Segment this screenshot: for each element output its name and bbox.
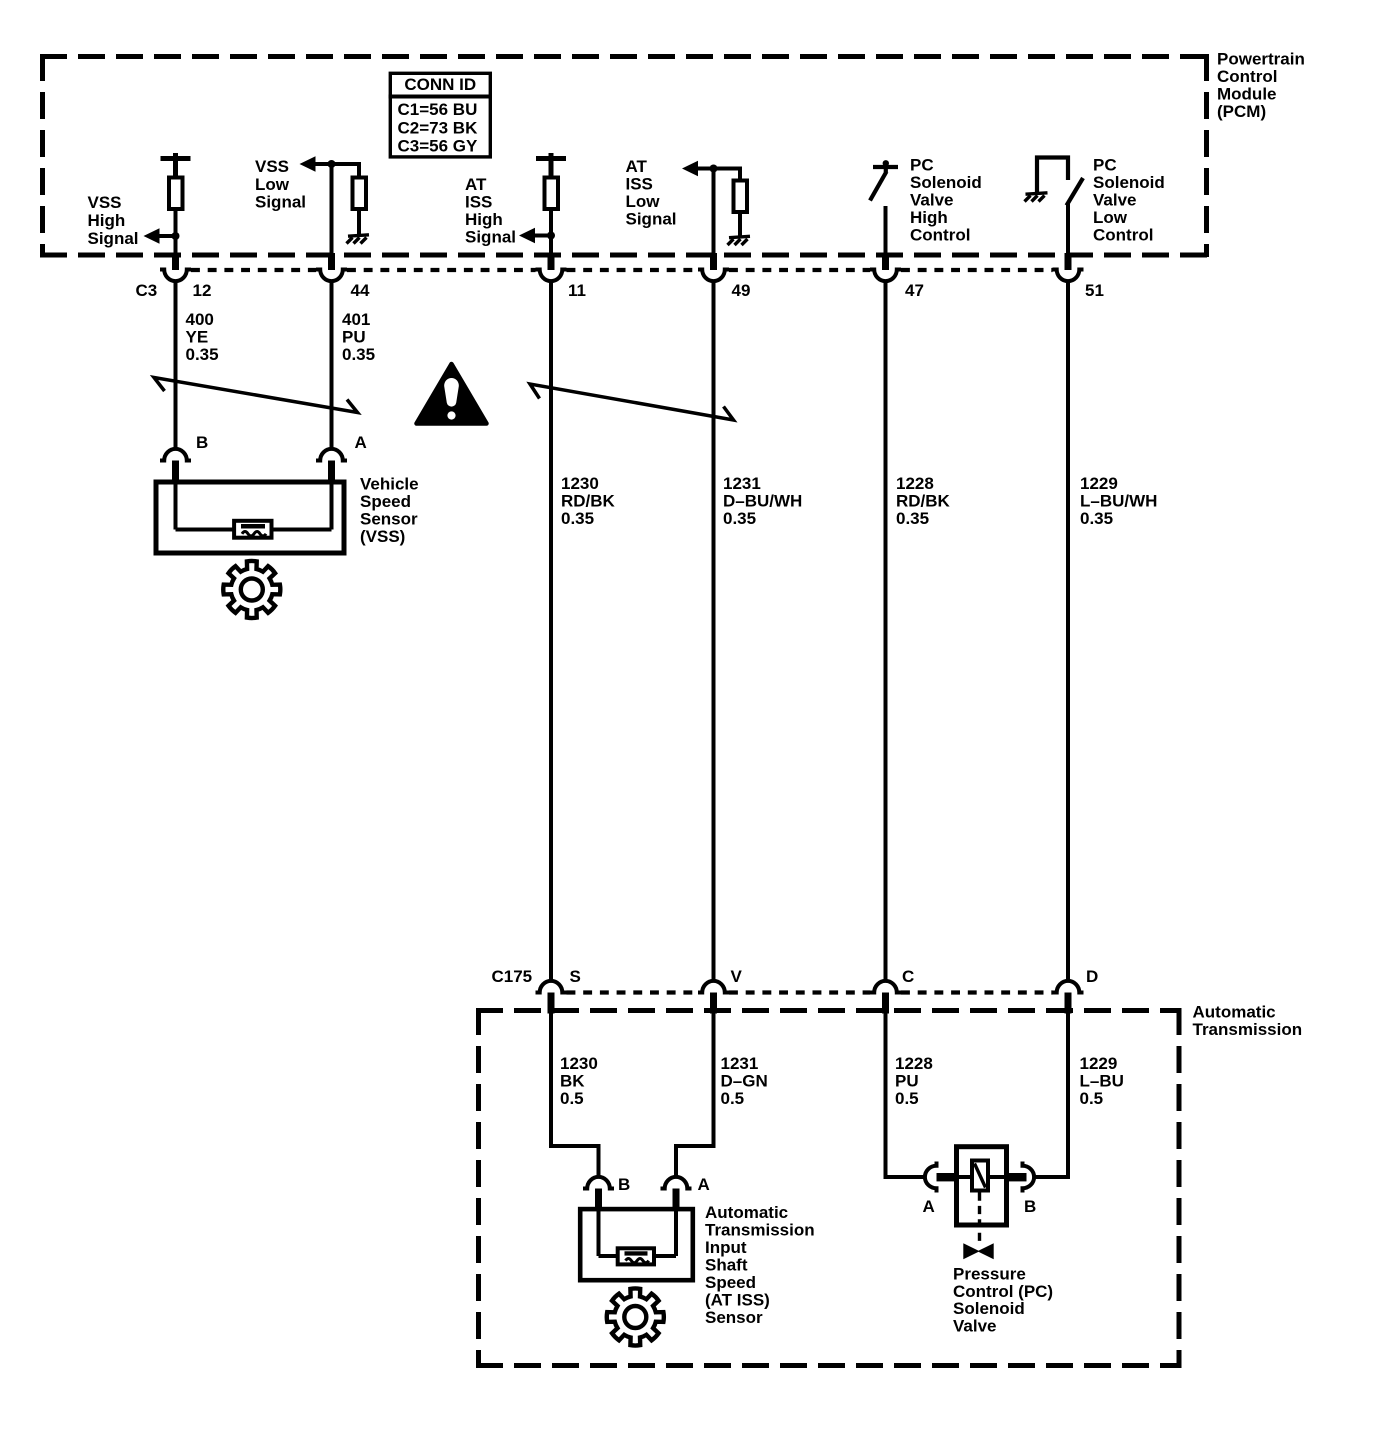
svg-text:C1=56 BU: C1=56 BU xyxy=(398,100,478,119)
terminal B of VSS xyxy=(160,449,191,461)
wire pin 47 vertical inside PCM xyxy=(884,206,888,256)
pin 47 feedthrough xyxy=(882,253,889,270)
pin 51 feedthrough xyxy=(1065,253,1072,270)
svg-text:44: 44 xyxy=(351,281,370,300)
connector C175 dotted line xyxy=(567,990,1053,994)
terminal B of AT ISS sensor xyxy=(583,1177,614,1189)
wire VSS low horizontal xyxy=(313,162,359,166)
connector C2 pin 47 terminal xyxy=(870,270,901,282)
svg-text:Powertrain: Powertrain xyxy=(1217,50,1305,69)
svg-text:0.5: 0.5 xyxy=(895,1089,919,1108)
svg-text:Signal: Signal xyxy=(88,229,139,248)
svg-text:Low: Low xyxy=(626,192,661,211)
PC solenoid valve box xyxy=(957,1147,1007,1225)
VSS internal wiring xyxy=(176,484,332,530)
svg-text:Signal: Signal xyxy=(626,210,677,229)
svg-text:Valve: Valve xyxy=(1093,191,1137,210)
svg-text:YE: YE xyxy=(186,328,209,347)
svg-text:Solenoid: Solenoid xyxy=(910,173,982,192)
wire pin 44 vertical inside PCM xyxy=(330,162,334,256)
svg-text:Signal: Signal xyxy=(465,228,516,247)
svg-text:L–BU: L–BU xyxy=(1080,1072,1124,1091)
wire AT ISS low drop to resistor xyxy=(738,167,742,181)
svg-text:L–BU/WH: L–BU/WH xyxy=(1080,492,1157,511)
svg-text:S: S xyxy=(570,967,581,986)
resistor VSS low xyxy=(353,178,367,210)
gear icon VSS xyxy=(223,561,280,618)
arrow VSS Low Signal xyxy=(300,156,316,172)
svg-text:V: V xyxy=(731,967,743,986)
svg-text:C2=73 BK: C2=73 BK xyxy=(398,119,479,138)
arrow VSS High Signal xyxy=(144,228,160,244)
PC solenoid low driver switch with ground hook xyxy=(1037,158,1083,206)
terminal A of PC solenoid xyxy=(925,1162,937,1193)
Automatic Transmission dashed box xyxy=(476,1008,1182,1368)
svg-text:Low: Low xyxy=(1093,208,1128,227)
AT ISS pickup coil element xyxy=(618,1248,654,1264)
svg-text:1230: 1230 xyxy=(560,1054,598,1073)
svg-text:High: High xyxy=(88,211,126,230)
svg-text:0.35: 0.35 xyxy=(723,509,756,528)
svg-text:Shaft: Shaft xyxy=(705,1256,748,1275)
PC solenoid high driver switch xyxy=(870,160,898,200)
svg-text:VSS: VSS xyxy=(88,193,122,212)
svg-text:Low: Low xyxy=(255,175,290,194)
svg-text:0.5: 0.5 xyxy=(560,1089,584,1108)
pin 49 feedthrough xyxy=(710,253,717,270)
svg-text:A: A xyxy=(923,1197,935,1216)
AT ISS sensor box xyxy=(580,1209,693,1280)
svg-text:0.5: 0.5 xyxy=(721,1089,745,1108)
svg-text:11: 11 xyxy=(568,281,586,300)
wire 1229 L-BU/WH circuit 51 to C175 D xyxy=(1066,281,1070,981)
svg-text:A: A xyxy=(355,433,367,452)
svg-text:High: High xyxy=(465,210,503,229)
PCM module dashed box xyxy=(40,54,1209,257)
resistor AT ISS low xyxy=(734,181,748,213)
ground AT ISS low xyxy=(728,236,751,245)
svg-text:VSS: VSS xyxy=(255,157,289,176)
arrow AT ISS Low Signal xyxy=(682,161,698,177)
connector C3 dotted line xyxy=(191,268,1053,272)
svg-text:0.35: 0.35 xyxy=(896,509,929,528)
svg-text:1231: 1231 xyxy=(723,474,761,493)
terminal A of VSS xyxy=(316,449,347,461)
svg-text:Solenoid: Solenoid xyxy=(1093,173,1165,192)
gear icon AT ISS xyxy=(607,1288,664,1345)
wire 400 YE circuit 12 to VSS B xyxy=(174,281,178,449)
svg-text:1228: 1228 xyxy=(896,474,934,493)
svg-text:1230: 1230 xyxy=(561,474,599,493)
svg-text:Automatic: Automatic xyxy=(705,1203,788,1222)
resistor AT ISS high xyxy=(545,178,559,210)
svg-text:RD/BK: RD/BK xyxy=(896,492,951,511)
svg-text:Transmission: Transmission xyxy=(1193,1020,1303,1039)
svg-text:B: B xyxy=(1024,1197,1036,1216)
wire 1228 RD/BK circuit 47 to C175 C xyxy=(884,281,888,981)
svg-text:Input: Input xyxy=(705,1238,747,1257)
pin 12 feedthrough xyxy=(172,253,179,270)
svg-text:1231: 1231 xyxy=(721,1054,759,1073)
wire pin 51 vertical inside PCM xyxy=(1066,204,1070,256)
svg-text:Solenoid: Solenoid xyxy=(953,1299,1025,1318)
svg-text:PC: PC xyxy=(910,156,934,175)
svg-text:PC: PC xyxy=(1093,156,1117,175)
PC solenoid coil element xyxy=(972,1161,988,1191)
junction dot AT ISS high xyxy=(547,232,555,240)
wire VSS low drop to resistor xyxy=(357,162,361,177)
svg-text:401: 401 xyxy=(342,310,370,329)
wire 1230 RD/BK circuit 11 to C175 S xyxy=(549,281,553,981)
junction dot VSS low at wire 44 xyxy=(328,160,336,168)
svg-text:49: 49 xyxy=(732,281,751,300)
pin 11 feedthrough xyxy=(548,253,555,270)
svg-text:Module: Module xyxy=(1217,85,1277,104)
terminal A of AT ISS sensor xyxy=(661,1177,692,1189)
svg-text:1229: 1229 xyxy=(1080,1054,1118,1073)
svg-text:Pressure: Pressure xyxy=(953,1265,1026,1284)
svg-text:ISS: ISS xyxy=(626,175,653,194)
svg-text:Valve: Valve xyxy=(910,191,954,210)
svg-text:AT: AT xyxy=(626,157,648,176)
ground VSS low xyxy=(347,235,370,244)
svg-text:B: B xyxy=(196,433,208,452)
svg-text:RD/BK: RD/BK xyxy=(561,492,616,511)
junction dot AT ISS low at wire 49 xyxy=(710,165,718,173)
svg-text:D–GN: D–GN xyxy=(721,1072,768,1091)
wire 1231 D-BU/WH circuit 49 to C175 V xyxy=(712,281,716,981)
PC solenoid actuator dashed stem xyxy=(978,1193,981,1242)
svg-text:Speed: Speed xyxy=(705,1273,756,1292)
PC valve bowtie symbol xyxy=(964,1244,993,1259)
svg-text:High: High xyxy=(910,208,948,227)
svg-text:C: C xyxy=(902,967,914,986)
Vehicle Speed Sensor VSS box xyxy=(156,482,344,553)
svg-text:Speed: Speed xyxy=(360,492,411,511)
svg-text:12: 12 xyxy=(193,281,212,300)
svg-text:0.35: 0.35 xyxy=(186,345,219,364)
wire VSS low to ground xyxy=(357,209,361,235)
svg-text:Sensor: Sensor xyxy=(705,1308,763,1327)
svg-text:A: A xyxy=(698,1175,710,1194)
svg-text:ISS: ISS xyxy=(465,193,492,212)
wire 1229 L-BU C175 D to PC solenoid B xyxy=(1034,1013,1071,1179)
svg-text:(AT ISS): (AT ISS) xyxy=(705,1291,770,1310)
svg-text:CONN ID: CONN ID xyxy=(404,75,476,94)
svg-text:Valve: Valve xyxy=(953,1317,997,1336)
svg-text:(VSS): (VSS) xyxy=(360,527,405,546)
wire AT ISS low horizontal xyxy=(696,167,741,171)
svg-text:C175: C175 xyxy=(492,967,533,986)
svg-text:1228: 1228 xyxy=(895,1054,933,1073)
warning triangle note xyxy=(417,364,487,424)
svg-text:D: D xyxy=(1086,967,1098,986)
svg-text:Control: Control xyxy=(910,226,970,245)
svg-text:Control: Control xyxy=(1093,226,1153,245)
svg-text:0.35: 0.35 xyxy=(342,345,375,364)
resistor VSS high xyxy=(169,178,183,210)
svg-text:1229: 1229 xyxy=(1080,474,1118,493)
svg-text:D–BU/WH: D–BU/WH xyxy=(723,492,802,511)
svg-text:Vehicle: Vehicle xyxy=(360,475,419,494)
svg-text:C3: C3 xyxy=(136,281,158,300)
VSS high internal termination T xyxy=(161,153,191,177)
pin 44 feedthrough xyxy=(328,253,335,270)
svg-text:Signal: Signal xyxy=(255,193,306,212)
AT ISS high internal termination T xyxy=(536,153,566,177)
wire 1228 PU C175 C to PC solenoid A xyxy=(884,1013,924,1179)
svg-text:Sensor: Sensor xyxy=(360,510,418,529)
svg-text:BK: BK xyxy=(560,1072,585,1091)
AT ISS internal wiring xyxy=(599,1211,677,1256)
svg-text:400: 400 xyxy=(186,310,214,329)
CONN ID table xyxy=(389,73,492,157)
wire VSS high to pin 12 xyxy=(174,209,178,256)
svg-text:Transmission: Transmission xyxy=(705,1221,815,1240)
svg-text:B: B xyxy=(618,1175,630,1194)
VSS pickup coil element xyxy=(234,521,271,538)
connector C175 terminal S xyxy=(536,981,567,993)
ground PC solenoid low xyxy=(1025,193,1048,202)
connector C175 terminal C xyxy=(870,981,901,993)
twisted pair marker wires 400/401 xyxy=(154,378,358,413)
wire 401 PU circuit 44 to VSS A xyxy=(330,281,334,449)
svg-text:AT: AT xyxy=(465,175,487,194)
connector C2 pin 11 terminal xyxy=(536,270,567,282)
connector C3 pin 12 terminal xyxy=(160,270,191,282)
PC solenoid internal wires xyxy=(959,1175,972,1179)
twisted pair marker wires 1230/1231 xyxy=(530,384,734,420)
connector C175 terminal D xyxy=(1053,981,1084,993)
connector C3 pin 44 terminal xyxy=(316,270,347,282)
svg-text:0.5: 0.5 xyxy=(1080,1089,1104,1108)
svg-text:47: 47 xyxy=(905,281,924,300)
svg-text:PU: PU xyxy=(342,328,366,347)
arrow AT ISS High Signal xyxy=(519,228,535,244)
svg-text:51: 51 xyxy=(1085,281,1104,300)
connector C175 terminal V xyxy=(698,981,729,993)
wire pin 49 vertical inside PCM xyxy=(712,167,716,257)
svg-text:C3=56 GY: C3=56 GY xyxy=(398,137,479,156)
wire AT ISS high to pin 11 xyxy=(549,209,553,256)
terminal B of PC solenoid xyxy=(1023,1162,1035,1193)
wire 1230 BK C175 S to AT ISS B xyxy=(551,1013,599,1176)
wire AT ISS low to ground xyxy=(738,212,742,237)
svg-text:0.35: 0.35 xyxy=(561,509,594,528)
svg-text:(PCM): (PCM) xyxy=(1217,102,1266,121)
junction dot VSS high xyxy=(172,232,180,240)
connector C2 pin 51 terminal xyxy=(1053,270,1084,282)
svg-text:0.35: 0.35 xyxy=(1080,509,1113,528)
connector C2 pin 49 terminal xyxy=(698,270,729,282)
svg-text:Control: Control xyxy=(1217,67,1277,86)
svg-text:Automatic: Automatic xyxy=(1193,1003,1276,1022)
wire 1231 D-GN C175 V to AT ISS A xyxy=(676,1013,714,1176)
svg-text:PU: PU xyxy=(895,1072,919,1091)
